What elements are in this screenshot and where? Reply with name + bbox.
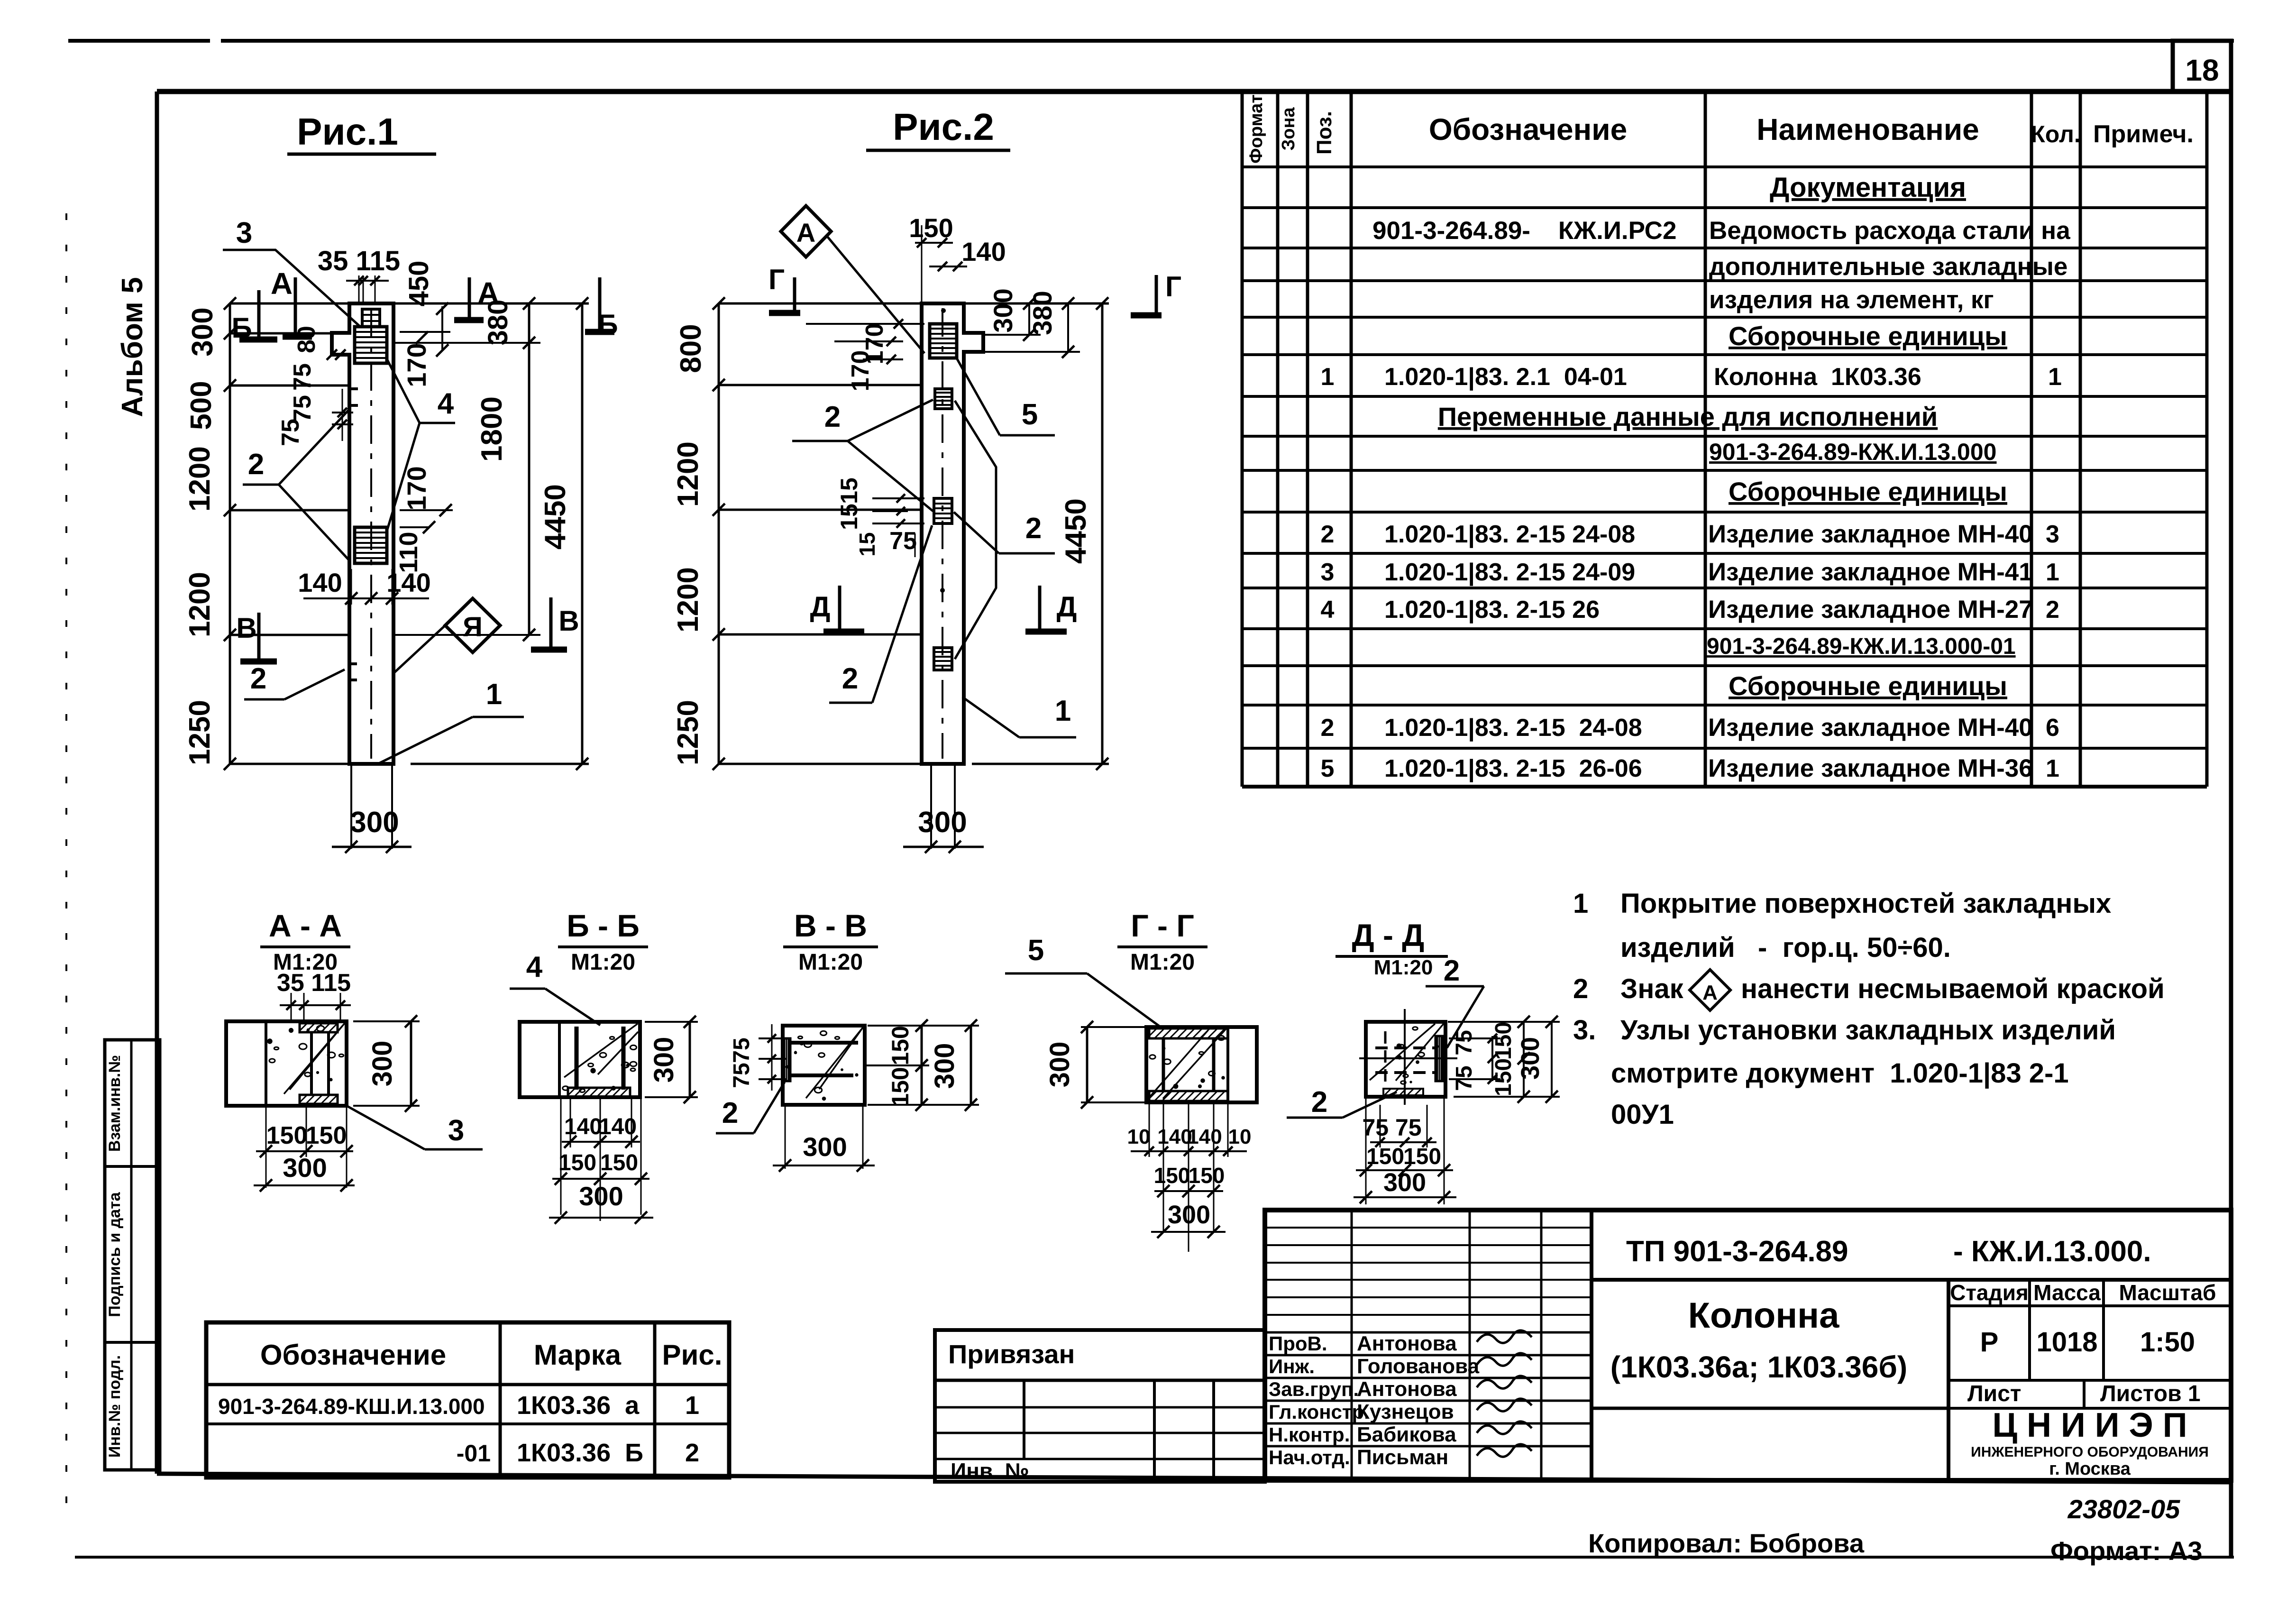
- svg-text:Обозначение: Обозначение: [1429, 112, 1627, 147]
- svg-text:Д: Д: [810, 591, 831, 623]
- svg-text:Изделие закладное МН-40: Изделие закладное МН-40: [1708, 714, 2033, 742]
- svg-text:Ц Н И И Э П: Ц Н И И Э П: [1992, 1406, 2187, 1444]
- svg-text:1.020-1|83. 2.1 04-01: 1.020-1|83. 2.1 04-01: [1384, 363, 1627, 391]
- svg-text:Сборочные единицы: Сборочные единицы: [1729, 321, 2007, 351]
- Fig2 column outline: [922, 303, 983, 764]
- svg-text:170: 170: [402, 343, 431, 387]
- section В-В side plate embed: [783, 1038, 790, 1081]
- svg-text:1К03.36 Б: 1К03.36 Б: [517, 1439, 643, 1467]
- svg-text:1: 1: [2046, 559, 2059, 586]
- svg-text:4: 4: [438, 387, 454, 420]
- svg-text:А - А: А - А: [269, 908, 342, 943]
- svg-text:Письман: Письман: [1357, 1446, 1448, 1469]
- svg-text:1250: 1250: [672, 700, 704, 765]
- section Б-Б right dim 300: [689, 1022, 691, 1097]
- svg-text:3: 3: [448, 1114, 464, 1147]
- section Д-Д centerlines: [1404, 1009, 1406, 1105]
- svg-text:150: 150: [887, 1067, 914, 1106]
- svg-text:1: 1: [1573, 888, 1588, 919]
- Fig1 small side embed (2) upper: [350, 389, 358, 405]
- svg-text:ПроВ.: ПроВ.: [1269, 1332, 1327, 1355]
- svg-text:Н.контр.: Н.контр.: [1269, 1423, 1350, 1446]
- left margin stamp table: [105, 1040, 160, 1470]
- svg-text:800: 800: [675, 324, 707, 373]
- svg-text:300: 300: [186, 307, 219, 356]
- svg-text:Антонова: Антонова: [1357, 1377, 1457, 1401]
- svg-text:2: 2: [1444, 954, 1460, 987]
- svg-text:Масса: Масса: [2033, 1280, 2101, 1305]
- svg-text:901-3-264.89-КЖ.И.13.000: 901-3-264.89-КЖ.И.13.000: [1709, 439, 1996, 465]
- svg-text:10: 10: [1127, 1125, 1151, 1148]
- svg-text:А: А: [1702, 981, 1718, 1004]
- section Г-Г left dim 300: [1086, 1027, 1089, 1102]
- title block left signature grid: [1265, 1227, 1592, 1229]
- svg-text:М1:20: М1:20: [1130, 950, 1195, 975]
- svg-text:140: 140: [564, 1114, 602, 1139]
- svg-text:300: 300: [350, 806, 399, 839]
- svg-text:2: 2: [250, 662, 266, 695]
- svg-text:2: 2: [1311, 1086, 1327, 1119]
- Fig1 bottom witness dashes: [350, 764, 352, 849]
- svg-text:300: 300: [367, 1041, 398, 1087]
- svg-text:2: 2: [842, 662, 858, 695]
- svg-text:1200: 1200: [672, 441, 704, 507]
- svg-text:1200: 1200: [672, 567, 704, 633]
- svg-text:75: 75: [1452, 1030, 1477, 1055]
- Fig1 top embed item 4: [362, 309, 380, 327]
- svg-text:1К03.36 а: 1К03.36 а: [517, 1391, 640, 1420]
- svg-text:5: 5: [1022, 398, 1038, 431]
- svg-text:300: 300: [283, 1153, 327, 1183]
- Fig2 right overall dim 4450: [1101, 303, 1104, 764]
- svg-text:изделия на элемент, кг: изделия на элемент, кг: [1709, 286, 1994, 314]
- svg-text:Рис.1: Рис.1: [297, 110, 398, 153]
- svg-text:Покрытие поверхностей закладны: Покрытие поверхностей закладных: [1620, 888, 2111, 919]
- svg-text:Рис.2: Рис.2: [893, 106, 994, 148]
- svg-text:Г: Г: [768, 264, 785, 295]
- svg-text:Поз.: Поз.: [1313, 111, 1336, 155]
- svg-text:75: 75: [289, 395, 316, 422]
- svg-text:А: А: [271, 266, 293, 301]
- svg-text:140: 140: [599, 1114, 637, 1139]
- svg-text:Масштаб: Масштаб: [2119, 1280, 2216, 1305]
- section Д-Д rebar bars: [1375, 1046, 1435, 1049]
- svg-text:В - В: В - В: [794, 908, 867, 943]
- Fig1 left witness lines: [230, 303, 349, 305]
- svg-text:1:50: 1:50: [2140, 1327, 2195, 1358]
- svg-text:2: 2: [824, 401, 841, 433]
- svg-text:М1:20: М1:20: [798, 950, 863, 975]
- svg-text:4450: 4450: [539, 484, 572, 550]
- svg-text:2: 2: [1573, 973, 1588, 1004]
- svg-text:140: 140: [961, 237, 1006, 266]
- svg-text:18: 18: [2185, 53, 2219, 87]
- svg-text:В: В: [236, 612, 256, 644]
- Fig1 centerline: [370, 309, 372, 759]
- svg-text:10: 10: [1228, 1125, 1252, 1148]
- specification table grid: [1241, 92, 1244, 787]
- svg-text:ТП 901-3-264.89: ТП 901-3-264.89: [1626, 1235, 1848, 1268]
- svg-text:170: 170: [847, 350, 874, 392]
- svg-text:Подпись и дата: Подпись и дата: [106, 1192, 124, 1317]
- svg-text:4: 4: [526, 951, 543, 983]
- svg-text:Зона: Зона: [1279, 107, 1299, 151]
- svg-text:150: 150: [600, 1150, 638, 1175]
- svg-text:Привязан: Привязан: [948, 1339, 1075, 1369]
- svg-text:1.020-1|83. 2-15 26-06: 1.020-1|83. 2-15 26-06: [1384, 755, 1642, 782]
- section Г-Г box embed: [1149, 1028, 1228, 1038]
- svg-text:140: 140: [386, 568, 430, 597]
- svg-text:2: 2: [685, 1439, 699, 1467]
- svg-text:Я: Я: [463, 612, 483, 642]
- svg-text:901-3-264.89- КЖ.И.РС2: 901-3-264.89- КЖ.И.РС2: [1372, 217, 1676, 245]
- svg-text:Колонна 1К03.36: Колонна 1К03.36: [1714, 363, 1921, 391]
- section Б-Б rebars and plate: [575, 1027, 579, 1090]
- svg-text:35 115: 35 115: [318, 246, 400, 276]
- Fig2 left dim chain: [718, 303, 720, 764]
- svg-text:1.020-1|83. 2-15 26: 1.020-1|83. 2-15 26: [1384, 596, 1600, 624]
- title block top band: [1590, 1210, 1593, 1480]
- section A-A right dim 300: [410, 1021, 412, 1106]
- Fig1 left dim chain: [229, 303, 231, 764]
- svg-text:Голованова: Голованова: [1357, 1355, 1480, 1378]
- svg-text:Зав.груп.: Зав.груп.: [1269, 1378, 1359, 1400]
- svg-text:140: 140: [298, 568, 342, 597]
- section В-В bottom dim 300: [785, 1105, 786, 1169]
- svg-text:300: 300: [579, 1181, 623, 1211]
- svg-text:2: 2: [248, 448, 264, 481]
- svg-text:Сборочные единицы: Сборочные единицы: [1729, 477, 2007, 506]
- svg-text:М1:20: М1:20: [1374, 956, 1433, 979]
- svg-text:23802-05: 23802-05: [2067, 1494, 2181, 1524]
- Fig1 column outline: [332, 303, 393, 764]
- svg-text:М1:20: М1:20: [571, 950, 635, 975]
- svg-text:1: 1: [1321, 363, 1335, 391]
- section Д-Д right side plate embed: [1436, 1036, 1443, 1081]
- svg-text:300: 300: [649, 1037, 679, 1083]
- sheet top edge line: [68, 39, 210, 43]
- Fig1 quality diamond A: [445, 598, 500, 652]
- Fig2 small embed 2b: [934, 498, 952, 523]
- svg-text:1018: 1018: [2036, 1327, 2097, 1358]
- svg-text:Кол.: Кол.: [2031, 121, 2080, 147]
- svg-text:Инв. №: Инв. №: [951, 1459, 1029, 1483]
- Fig2 small embed 2c: [934, 648, 952, 670]
- drawing frame: [157, 89, 2231, 94]
- svg-text:Изделие закладное МН-27: Изделие закладное МН-27: [1708, 596, 2033, 624]
- svg-text:Инж.: Инж.: [1269, 1355, 1315, 1377]
- svg-text:Копировал: Боброва: Копировал: Боброва: [1588, 1528, 1865, 1558]
- svg-text:Обозначение: Обозначение: [260, 1339, 446, 1371]
- section Г-Г body: [1146, 1027, 1257, 1102]
- svg-text:1800: 1800: [476, 396, 508, 462]
- section Б-Б bottom dims: [570, 1097, 571, 1147]
- svg-text:г. Москва: г. Москва: [2049, 1459, 2131, 1479]
- svg-text:2: 2: [1321, 521, 1335, 548]
- svg-text:Изделие закладное МН-36: Изделие закладное МН-36: [1708, 754, 2033, 782]
- title block outer: [1265, 1210, 2231, 1480]
- svg-text:В: В: [558, 605, 579, 637]
- sheet left dashed edge: [65, 213, 67, 1524]
- svg-text:5: 5: [1321, 755, 1335, 782]
- svg-text:170: 170: [402, 466, 431, 510]
- svg-text:2: 2: [1321, 714, 1335, 742]
- svg-text:изделий - гор.ц. 50÷60.: изделий - гор.ц. 50÷60.: [1620, 932, 1951, 963]
- svg-text:15: 15: [855, 532, 879, 556]
- svg-text:1.020-1|83. 2-15 24-08: 1.020-1|83. 2-15 24-08: [1384, 714, 1642, 742]
- svg-text:Наименование: Наименование: [1756, 112, 1979, 147]
- svg-text:4450: 4450: [1060, 498, 1092, 564]
- sheet bottom edge line: [75, 1556, 2234, 1559]
- svg-text:Взам.инв.№: Взам.инв.№: [106, 1055, 124, 1152]
- svg-text:Д - Д: Д - Д: [1352, 918, 1425, 953]
- svg-text:Рис.: Рис.: [662, 1339, 723, 1371]
- svg-text:75: 75: [729, 1063, 754, 1088]
- svg-text:300: 300: [929, 1043, 960, 1089]
- svg-text:150: 150: [887, 1026, 914, 1065]
- svg-text:Р: Р: [1980, 1327, 1999, 1358]
- svg-text:4: 4: [1321, 596, 1335, 624]
- svg-text:300: 300: [1044, 1042, 1075, 1088]
- title block stage/mass/scale: [1947, 1280, 1950, 1480]
- svg-text:3: 3: [236, 217, 252, 249]
- Fig2 centerline: [942, 308, 943, 759]
- svg-text:1: 1: [685, 1391, 699, 1420]
- svg-text:2: 2: [1025, 512, 1042, 545]
- svg-text:Формат: А3: Формат: А3: [2050, 1536, 2203, 1566]
- svg-text:Лист: Лист: [1967, 1381, 2021, 1406]
- svg-text:300: 300: [1516, 1037, 1545, 1080]
- svg-text:3.: 3.: [1573, 1015, 1596, 1046]
- section В-В body: [783, 1026, 865, 1105]
- svg-text:Бабикова: Бабикова: [1357, 1423, 1456, 1446]
- svg-text:1: 1: [1055, 695, 1071, 727]
- svg-text:Антонова: Антонова: [1357, 1332, 1457, 1355]
- svg-text:35 115: 35 115: [277, 969, 351, 997]
- Fig2 centerline dots: [941, 308, 946, 313]
- Fig2 embed link polyline: [955, 401, 996, 659]
- svg-text:1: 1: [486, 678, 502, 711]
- section Б-Б body: [520, 1022, 640, 1097]
- Fig1 right overall dim 4450: [581, 303, 584, 764]
- section Г-Г bottom dims 10 140 140 10: [1149, 1102, 1150, 1157]
- svg-text:Знак: Знак: [1620, 973, 1684, 1004]
- svg-text:1: 1: [2046, 755, 2059, 782]
- svg-text:150: 150: [266, 1122, 308, 1149]
- svg-text:Формат: Формат: [1246, 94, 1266, 164]
- Fig1 dim 170/110 mid: [400, 509, 453, 511]
- Fig2 small embed 2a: [935, 389, 952, 409]
- svg-text:Б - Б: Б - Б: [567, 908, 640, 943]
- svg-text:Д: Д: [1057, 591, 1077, 623]
- svg-text:450: 450: [403, 261, 434, 307]
- section Д-Д body: [1366, 1022, 1445, 1097]
- svg-text:Примеч.: Примеч.: [2093, 120, 2194, 148]
- svg-text:смотрите документ 1.020-1|83: смотрите документ 1.020-1|83 2-1: [1611, 1058, 2069, 1089]
- Fig1 small side embed (2) lower: [349, 664, 357, 680]
- svg-text:Инв.№ подл.: Инв.№ подл.: [106, 1355, 124, 1458]
- svg-text:380: 380: [1027, 291, 1057, 335]
- section Д-Д bottom plate embed: [1383, 1089, 1423, 1095]
- section В-В right dims: [921, 1026, 923, 1105]
- svg-text:1.020-1|83. 2-15 24-09: 1.020-1|83. 2-15 24-09: [1384, 559, 1635, 586]
- Fig2 quality diamond A: [781, 206, 831, 257]
- svg-text:75: 75: [289, 363, 316, 391]
- svg-text:150: 150: [1491, 1058, 1516, 1096]
- svg-text:901-3-264.89-КЖ.И.13.000-01: 901-3-264.89-КЖ.И.13.000-01: [1707, 634, 2016, 659]
- section A-A bottom dims: [265, 1106, 267, 1157]
- svg-text:75: 75: [277, 419, 304, 446]
- svg-text:Г: Г: [1165, 271, 1181, 303]
- svg-text:Г - Г: Г - Г: [1131, 908, 1194, 943]
- svg-text:Стадия: Стадия: [1950, 1280, 2029, 1305]
- svg-text:Колонна: Колонна: [1688, 1295, 1839, 1336]
- svg-text:5: 5: [1028, 934, 1044, 967]
- svg-text:Сборочные единицы: Сборочные единицы: [1729, 671, 2007, 701]
- svg-text:15: 15: [836, 504, 862, 530]
- notes quality diamond: [1690, 970, 1730, 1010]
- svg-text:ИНЖЕНЕРНОГО ОБОРУДОВАНИЯ: ИНЖЕНЕРНОГО ОБОРУДОВАНИЯ: [1971, 1444, 2209, 1460]
- svg-text:500: 500: [185, 381, 218, 430]
- svg-text:Изделие закладное МН-41: Изделие закладное МН-41: [1708, 558, 2033, 586]
- svg-text:1200: 1200: [183, 446, 216, 512]
- svg-text:3: 3: [1321, 559, 1335, 586]
- Fig1 dim 450: [441, 306, 443, 350]
- svg-text:300: 300: [1383, 1168, 1426, 1197]
- svg-text:300: 300: [1168, 1201, 1210, 1229]
- svg-text:901-3-264.89-КШ.И.13.000: 901-3-264.89-КШ.И.13.000: [218, 1394, 485, 1419]
- section Д-Д bottom dims: [1365, 1097, 1367, 1204]
- svg-text:150: 150: [1491, 1022, 1516, 1060]
- svg-text:300: 300: [918, 806, 967, 839]
- section A-A body: [226, 1021, 347, 1106]
- designation/mark/fig table: [206, 1322, 729, 1477]
- svg-text:110: 110: [394, 532, 423, 573]
- svg-text:6: 6: [2046, 714, 2059, 742]
- svg-text:1200: 1200: [183, 572, 216, 637]
- svg-text:Ведомость расхода стали на: Ведомость расхода стали на: [1709, 217, 2070, 245]
- svg-text:-01: -01: [457, 1440, 491, 1467]
- svg-text:150: 150: [1189, 1163, 1225, 1188]
- Fig1 mid embed item 4: [355, 527, 387, 563]
- svg-text:А: А: [796, 218, 815, 248]
- svg-text:Переменные данные для исполнен: Переменные данные для исполнений: [1438, 402, 1938, 431]
- svg-text:1: 1: [2048, 363, 2062, 391]
- svg-text:150: 150: [1154, 1163, 1190, 1188]
- svg-text:дополнительные закладные: дополнительные закладные: [1709, 253, 2067, 281]
- svg-text:Документация: Документация: [1770, 172, 1966, 203]
- svg-text:Нач.отд.: Нач.отд.: [1269, 1446, 1350, 1468]
- svg-text:2: 2: [722, 1097, 738, 1129]
- svg-text:Гл.констр.: Гл.констр.: [1269, 1401, 1370, 1423]
- svg-text:Марка: Марка: [534, 1339, 622, 1371]
- svg-text:2: 2: [2046, 596, 2059, 624]
- svg-text:Узлы установки закладных издел: Узлы установки закладных изделий: [1620, 1015, 2116, 1046]
- svg-text:А: А: [477, 276, 499, 310]
- Fig2 big embed item 5: [930, 324, 957, 358]
- svg-text:75: 75: [889, 527, 917, 555]
- svg-text:75 75: 75 75: [1362, 1114, 1421, 1141]
- svg-text:(1К03.36а; 1К03.36б): (1К03.36а; 1К03.36б): [1610, 1350, 1907, 1384]
- svg-text:- КЖ.И.13.000.: - КЖ.И.13.000.: [1953, 1235, 2151, 1268]
- svg-text:300: 300: [988, 288, 1018, 332]
- svg-text:3: 3: [2046, 521, 2059, 548]
- svg-text:Листов 1: Листов 1: [2100, 1381, 2201, 1406]
- svg-text:300: 300: [803, 1132, 847, 1162]
- Fig2 dims 300 380 right: [1028, 303, 1030, 335]
- svg-text:140: 140: [1187, 1125, 1222, 1148]
- svg-text:1250: 1250: [183, 700, 216, 765]
- svg-text:00У1: 00У1: [1611, 1099, 1674, 1130]
- linked-project table: [935, 1330, 1265, 1482]
- Fig1 dim 380/1800: [528, 303, 531, 635]
- svg-text:15: 15: [836, 477, 862, 504]
- Fig1 dim 170 top: [400, 331, 450, 333]
- svg-text:1.020-1|83. 2-15 24-08: 1.020-1|83. 2-15 24-08: [1384, 521, 1635, 548]
- section A-A channel embed: [300, 1023, 338, 1032]
- svg-text:75: 75: [729, 1037, 754, 1063]
- svg-text:нанести несмываемой краской: нанести несмываемой краской: [1741, 973, 2165, 1004]
- page number box: [2173, 41, 2231, 92]
- svg-text:Изделие закладное МН-40: Изделие закладное МН-40: [1708, 520, 2033, 548]
- svg-text:Кузнецов: Кузнецов: [1357, 1400, 1454, 1423]
- svg-text:Альбом 5: Альбом 5: [116, 277, 149, 417]
- svg-text:150: 150: [558, 1150, 596, 1175]
